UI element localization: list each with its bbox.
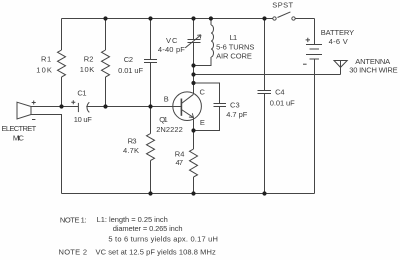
svg-text:NOTE 2: NOTE 2 [59, 248, 88, 257]
svg-text:MIC: MIC [13, 133, 25, 142]
node collector antenna [191, 72, 195, 76]
node top rail L1 [209, 16, 213, 20]
resistor R3 [147, 134, 155, 161]
node base wire R2 [103, 104, 107, 108]
capacitor C3 [214, 104, 227, 107]
battery plus sign [306, 38, 310, 42]
node ground rail R4 [191, 191, 195, 195]
wire C3 bottom lead [194, 107, 220, 131]
svg-text:SPST: SPST [272, 1, 293, 10]
wire C3 top lead [194, 83, 220, 104]
node base wire C2/R3 [148, 104, 152, 108]
node top rail C2 [148, 16, 152, 20]
svg-text:47: 47 [176, 158, 184, 167]
svg-text:ANTENNA: ANTENNA [355, 57, 390, 66]
svg-text:R1: R1 [41, 55, 51, 64]
battery B1 [306, 19, 322, 194]
antenna A1 [334, 61, 347, 75]
variable capacitor VC [188, 40, 201, 43]
svg-text:NOTE 1:: NOTE 1: [60, 216, 87, 225]
wire antenna line [194, 74, 341, 76]
svg-text:B: B [164, 95, 169, 104]
node collector tank [191, 63, 195, 67]
wire R1 branch vertical [61, 19, 63, 107]
svg-text:L1: length = 0.25 inch: L1: length = 0.25 inch [97, 215, 168, 224]
wire R4 vertical [193, 131, 195, 194]
svg-text:E: E [200, 118, 205, 127]
svg-text:10 uF: 10 uF [74, 115, 92, 124]
wire C2/R3 branch vertical [150, 19, 152, 194]
resistor R4 [190, 149, 198, 177]
svg-text:4-6 V: 4-6 V [329, 37, 348, 46]
svg-text:4.7K: 4.7K [123, 146, 139, 155]
node collector C3 [191, 81, 195, 85]
svg-text:C: C [200, 88, 206, 97]
C1 plus sign [71, 100, 75, 104]
node top rail R2 [103, 16, 107, 20]
svg-text:R3: R3 [128, 136, 137, 145]
capacitor C4 [258, 91, 272, 94]
wire top rail left segment [62, 18, 273, 20]
svg-text:Q1: Q1 [159, 115, 168, 124]
transistor Q1 circle [173, 92, 202, 121]
microphone MIC1 body [17, 102, 31, 119]
svg-text:diameter = 0.265 inch: diameter = 0.265 inch [113, 224, 183, 233]
svg-text:2N2222: 2N2222 [156, 125, 183, 134]
wire base wire from C1 to Q1 [86, 106, 181, 108]
wire bottom ground rail [62, 193, 315, 195]
svg-text:BATTERY: BATTERY [321, 28, 354, 37]
wire R2 branch vertical [105, 19, 107, 107]
svg-text:C2: C2 [124, 55, 133, 64]
inductor L1 [194, 19, 214, 66]
svg-text:5-6 TURNS: 5-6 TURNS [216, 43, 254, 52]
switch SPST [273, 17, 276, 20]
svg-text:C1: C1 [77, 89, 86, 98]
svg-text:R2: R2 [84, 54, 94, 63]
svg-text:C4: C4 [275, 88, 285, 97]
resistor R2 [102, 50, 110, 77]
node ground rail R3 [148, 191, 152, 195]
node top rail VC [191, 16, 195, 20]
transistor Q1 collector lead [181, 94, 193, 103]
svg-text:C3: C3 [230, 101, 240, 110]
wire mic plus lead / base wire [31, 106, 78, 108]
capacitor C1 polarized [77, 103, 79, 112]
svg-text:10K: 10K [36, 66, 52, 75]
wire top rail right segment (after switch) [295, 18, 314, 20]
wire C4 branch vertical [264, 19, 266, 194]
capacitor C2 [144, 60, 157, 63]
svg-text:10K: 10K [80, 65, 95, 74]
resistor R1 [58, 50, 66, 77]
svg-text:VC set at 12.5 pF yields 108.8: VC set at 12.5 pF yields 108.8 MHz [96, 248, 216, 257]
transistor Q1 base bar [180, 99, 182, 116]
svg-text:VC: VC [166, 36, 178, 45]
svg-text:0.01 uF: 0.01 uF [118, 66, 143, 75]
wire mic minus lead to ground rail [31, 115, 62, 194]
mic minus sign [32, 119, 35, 121]
svg-text:5 to 6 turns yields apx. 0.17: 5 to 6 turns yields apx. 0.17 uH [108, 235, 217, 244]
node top rail C4 [262, 16, 266, 20]
svg-text:4.7 pF: 4.7 pF [226, 110, 248, 119]
svg-text:ELECTRET: ELECTRET [2, 124, 37, 133]
svg-text:4-40 pF: 4-40 pF [158, 45, 185, 54]
node ground rail C4 [262, 191, 266, 195]
svg-text:0.01 uF: 0.01 uF [270, 99, 295, 108]
node emitter junction [191, 128, 195, 132]
svg-text:R4: R4 [175, 149, 185, 158]
battery minus sign [303, 63, 307, 65]
node base wire mic/R1 [59, 104, 63, 108]
svg-text:L1: L1 [230, 33, 238, 42]
transistor Q1 emitter lead with arrow [181, 110, 193, 131]
mic plus sign [32, 101, 36, 105]
wire VC / collector vertical [193, 19, 195, 95]
svg-text:30 INCH WIRE: 30 INCH WIRE [349, 66, 397, 75]
svg-text:AIR CORE: AIR CORE [216, 52, 252, 61]
